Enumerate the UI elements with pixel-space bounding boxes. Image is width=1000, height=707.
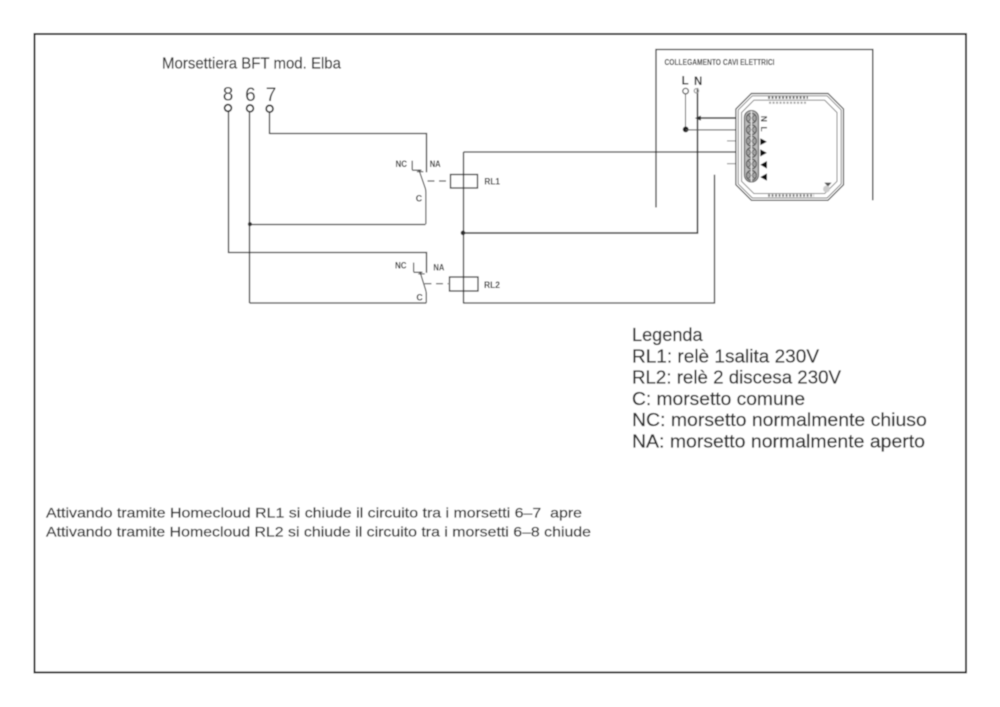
terminal circle L <box>683 88 689 94</box>
svg-text:N: N <box>759 116 769 122</box>
junction dot terminal 6 <box>248 222 252 226</box>
svg-text:Legenda: Legenda <box>632 325 704 345</box>
wire terminal 7 vertical <box>269 112 271 134</box>
svg-text:RL2: relè 2 discesa 230V: RL2: relè 2 discesa 230V <box>632 368 841 388</box>
module screws <box>746 111 756 182</box>
svg-text:NC: morsetto normalmente chius: NC: morsetto normalmente chiuso <box>632 410 927 430</box>
wire terminal 6 vertical <box>249 112 251 303</box>
terminal circle 6 <box>247 105 254 112</box>
contact 2 NC terminal bracket <box>414 263 423 273</box>
terminal mark N <box>694 89 698 93</box>
wire junction to N line <box>463 88 698 233</box>
wire RL1 top to module terminal 4 <box>464 151 736 153</box>
wire L vertical <box>685 94 687 129</box>
module outer octagon <box>736 94 844 201</box>
title Morsettiera BFT mod. Elba <box>162 56 341 73</box>
collegamento box frame <box>656 50 873 208</box>
wire L to module <box>686 129 736 131</box>
module corner mark <box>823 183 832 193</box>
module stub terminal 5 <box>727 163 736 165</box>
svg-text:Attivando tramite Homecloud RL: Attivando tramite Homecloud RL1 si chiud… <box>46 506 582 521</box>
terminal circle 7 <box>266 105 273 112</box>
wire RL2 bottom to module terminal 6 <box>463 175 715 303</box>
svg-text:C: C <box>416 293 423 303</box>
module second outline <box>738 96 841 198</box>
wire 6 to C2 <box>250 302 427 304</box>
svg-text:L: L <box>682 76 689 88</box>
svg-text:NC: NC <box>395 261 407 271</box>
module arrow up 2 <box>760 149 767 156</box>
module top edge micro text <box>768 96 808 99</box>
wire 7 to NA1 <box>270 134 427 173</box>
dashed link contact1 to RL1 <box>428 180 450 182</box>
svg-text:COLLEGAMENTO CAVI ELETTRICI: COLLEGAMENTO CAVI ELETTRICI <box>665 58 775 67</box>
wire terminal 8 to NA2 <box>228 253 427 273</box>
svg-text:NA: morsetto normalmente apert: NA: morsetto normalmente aperto <box>632 432 925 452</box>
L junction dot <box>683 126 689 132</box>
svg-text:NC: NC <box>396 159 408 169</box>
module arrow down 2 <box>760 173 767 180</box>
legend <box>632 325 927 452</box>
wire RL1 vertical through coil <box>463 152 465 233</box>
junction dot coils common <box>461 231 466 236</box>
wire terminal 8 vertical <box>228 112 230 253</box>
relay coil RL2 box <box>450 277 479 291</box>
svg-text:8: 8 <box>223 85 234 106</box>
module terminal pill <box>744 111 758 183</box>
svg-text:C: C <box>416 194 423 204</box>
svg-text:7: 7 <box>266 85 277 106</box>
svg-text:RL2: RL2 <box>484 280 500 290</box>
contact 1 blade <box>419 170 426 225</box>
terminal circle 8 <box>225 105 232 112</box>
module arrow down 1 <box>760 161 767 169</box>
svg-text:RL1: RL1 <box>484 177 500 187</box>
contact 1 NC terminal bracket <box>412 161 421 170</box>
contact 2 pivot tick <box>418 273 424 275</box>
module bottom edge micro text <box>768 194 814 197</box>
contact 1 pivot tick <box>417 171 423 173</box>
svg-text:6: 6 <box>245 85 256 106</box>
N junction arrow <box>695 116 701 121</box>
relay coil RL1 box <box>451 175 478 189</box>
wire 6 to C1 <box>250 224 426 226</box>
svg-text:C: morsetto comune: C: morsetto comune <box>632 389 805 409</box>
module inner panel <box>742 100 837 193</box>
svg-text:Attivando tramite Homecloud RL: Attivando tramite Homecloud RL2 si chiud… <box>46 525 591 540</box>
svg-text:NA: NA <box>433 263 444 273</box>
svg-text:NA: NA <box>430 159 441 169</box>
svg-text:RL1: relè 1salita 230V: RL1: relè 1salita 230V <box>632 346 819 366</box>
svg-text:N: N <box>694 76 702 88</box>
svg-text:L: L <box>759 126 769 131</box>
wire RL1 junction down to RL2 <box>463 233 465 303</box>
dashed link contact2 to RL2 <box>425 283 449 285</box>
wire N to module <box>698 117 736 119</box>
module arrow up 1 <box>760 138 767 145</box>
module stub terminal 3 <box>727 140 736 142</box>
contact 2 blade <box>420 272 426 303</box>
svg-text:Morsettiera BFT mod. Elba: Morsettiera BFT mod. Elba <box>162 56 341 73</box>
